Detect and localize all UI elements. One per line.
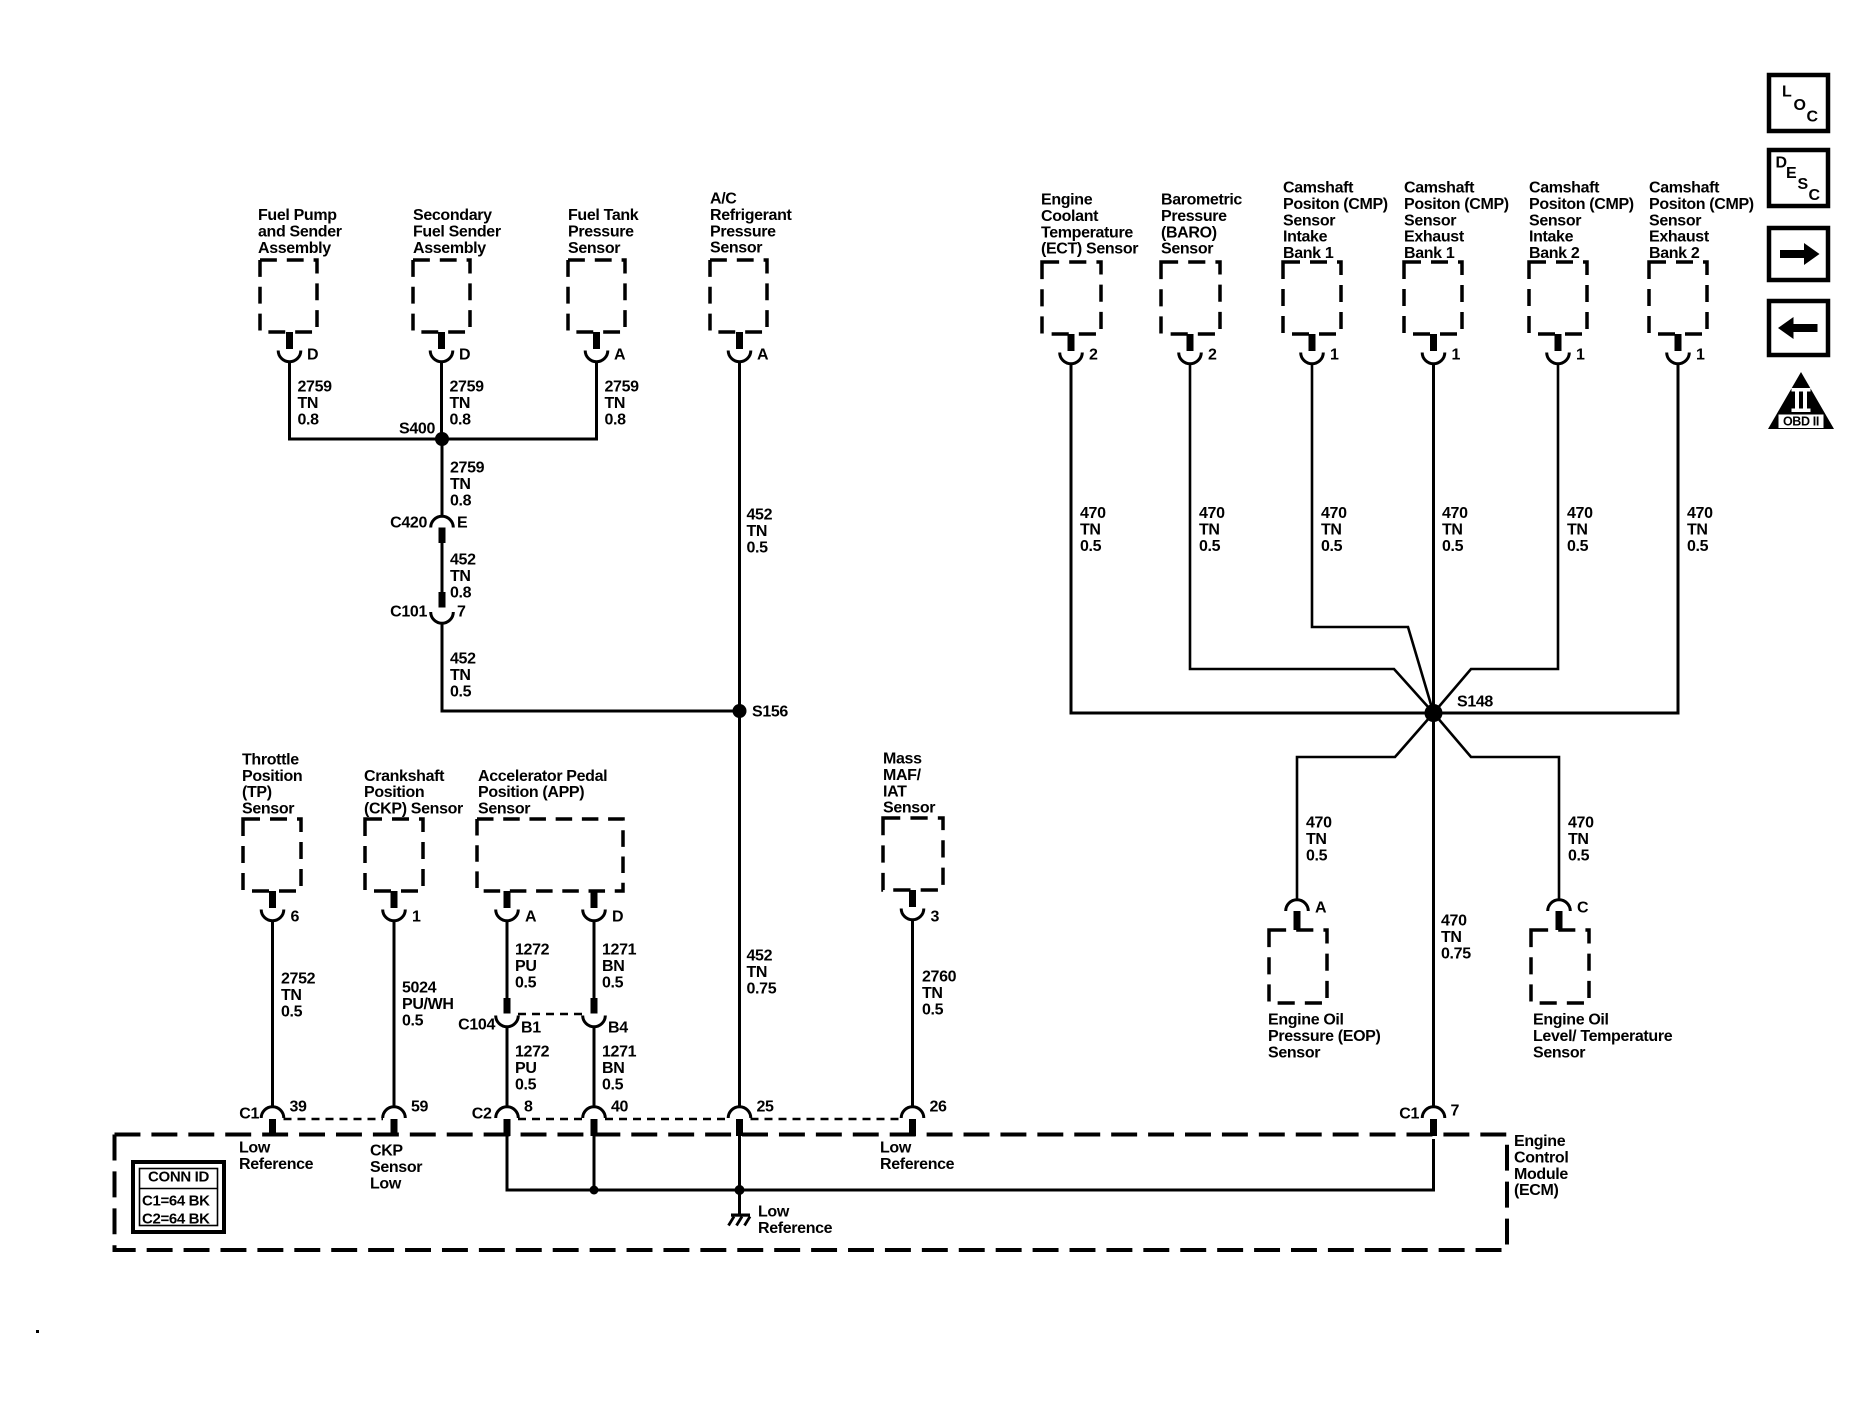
- svg-text:Camshaft: Camshaft: [1529, 180, 1600, 197]
- svg-text:A: A: [525, 909, 537, 926]
- svg-text:Assembly: Assembly: [258, 240, 331, 257]
- svg-text:Sensor: Sensor: [1649, 212, 1701, 229]
- svg-text:Sensor: Sensor: [370, 1159, 422, 1176]
- svg-text:452: 452: [747, 507, 773, 524]
- svg-text:452: 452: [747, 948, 773, 965]
- speck artifact bottom-left: [36, 1330, 39, 1333]
- svg-text:0.5: 0.5: [402, 1012, 424, 1029]
- svg-text:2759: 2759: [450, 460, 485, 477]
- svg-text:TN: TN: [450, 395, 471, 412]
- svg-text:Low: Low: [239, 1140, 271, 1157]
- svg-text:BN: BN: [602, 1060, 624, 1077]
- svg-text:C: C: [1807, 109, 1819, 126]
- svg-text:B1: B1: [521, 1020, 541, 1037]
- wire: 470 TN 0.5 from CMP Sensor Intake Bank 1 pin 1 to splice S148: [1312, 364, 1434, 713]
- svg-text:2759: 2759: [450, 379, 485, 396]
- wire: ECM pin 40 to bus: [593, 1136, 596, 1190]
- svg-text:Bank 1: Bank 1: [1404, 245, 1455, 262]
- wire: bus to internal Low Reference ground point: [738, 1190, 741, 1215]
- svg-text:2752: 2752: [281, 971, 316, 988]
- svg-text:Position (APP): Position (APP): [478, 784, 584, 801]
- label: wire 470 TN 0.5: [1199, 505, 1225, 555]
- component: Fuel Tank Pressure Sensor (pin A): [568, 207, 639, 364]
- svg-text:8: 8: [524, 1099, 533, 1116]
- wire: 2752 TN 0.5 from TP Sensor pin 6 to ECM pin C1-39: [271, 921, 274, 1107]
- svg-text:6: 6: [291, 909, 300, 926]
- svg-text:Intake: Intake: [1283, 229, 1328, 246]
- svg-text:0.8: 0.8: [450, 584, 472, 601]
- svg-text:TN: TN: [747, 523, 768, 540]
- wire: 1272 PU 0.5 from APP Sensor pin A to C104 pin B1: [506, 921, 509, 998]
- component: Fuel Pump and Sender Assembly (pin D): [258, 207, 342, 364]
- svg-text:470: 470: [1567, 505, 1593, 522]
- svg-text:470: 470: [1441, 913, 1467, 930]
- component: Camshaft Positon (CMP) Sensor Intake Bank 2 (pin 1): [1529, 180, 1634, 364]
- connector C104 mating line: [518, 1013, 583, 1016]
- label: wire 470 TN 0.5: [1568, 815, 1594, 865]
- svg-text:Mass: Mass: [883, 751, 922, 768]
- svg-text:PU/WH: PU/WH: [402, 996, 454, 1013]
- label: Low Reference (pin 39): [239, 1140, 314, 1173]
- ECM connector mating line C1 (39-59): [284, 1118, 384, 1121]
- svg-text:Sensor: Sensor: [1268, 1044, 1320, 1061]
- svg-text:0.8: 0.8: [450, 411, 472, 428]
- svg-text:A/C: A/C: [710, 191, 737, 208]
- svg-text:0.5: 0.5: [1080, 538, 1102, 555]
- label: wire 452 TN 0.75: [747, 948, 777, 998]
- svg-text:Sensor: Sensor: [568, 240, 620, 257]
- component: Barometric Pressure (BARO) Sensor (pin 2): [1161, 192, 1242, 364]
- component: Camshaft Positon (CMP) Sensor Exhaust Bank 2 (pin 1): [1649, 180, 1754, 364]
- label: wire 470 TN 0.5: [1306, 815, 1332, 865]
- component: Mass MAF/IAT Sensor (pin 3): [883, 751, 943, 926]
- wire: 1272 PU 0.5 from C104 pin B1 to ECM pin C2-8: [506, 1027, 509, 1107]
- ECM pin 59 (CKP Sensor Low): [383, 1099, 429, 1136]
- svg-text:A: A: [614, 347, 626, 364]
- svg-text:1271: 1271: [602, 942, 637, 959]
- svg-text:Sensor: Sensor: [1529, 212, 1581, 229]
- svg-text:0.5: 0.5: [602, 1076, 624, 1093]
- wire: 2759 TN 0.8 from Fuel Tank Pressure Sensor pin A to splice S400: [442, 361, 597, 439]
- svg-text:OBD II: OBD II: [1783, 415, 1819, 429]
- svg-text:PU: PU: [515, 958, 537, 975]
- svg-text:Control: Control: [1514, 1149, 1568, 1166]
- svg-text:TN: TN: [605, 395, 626, 412]
- connector C420 (pin E): [390, 515, 468, 543]
- svg-text:TN: TN: [1441, 929, 1462, 946]
- wire: 1271 BN 0.5 from C104 pin B4 to ECM pin 40: [593, 1027, 596, 1107]
- wire: 470 TN from CMP Sensor Exhaust Bank 1 pin 1 through S148 to ECM pin C1-7: [1432, 364, 1435, 1107]
- svg-text:TN: TN: [1321, 521, 1342, 538]
- svg-text:A: A: [1315, 900, 1327, 917]
- svg-text:Crankshaft: Crankshaft: [364, 768, 445, 785]
- ECM pin 25: [728, 1099, 774, 1136]
- connector C104 pin B1: [458, 998, 541, 1037]
- svg-text:25: 25: [757, 1099, 775, 1116]
- wire: 5024 PU/WH 0.5 from CKP Sensor pin 1 to ECM pin 59: [393, 921, 396, 1107]
- svg-text:452: 452: [450, 552, 476, 569]
- svg-text:0.5: 0.5: [1442, 538, 1464, 555]
- wire: 470 TN 0.5 from ECT Sensor pin 2 to splice S148: [1071, 364, 1434, 713]
- svg-text:0.8: 0.8: [450, 492, 472, 509]
- svg-text:1: 1: [1696, 347, 1705, 364]
- svg-text:TN: TN: [298, 395, 319, 412]
- svg-text:Assembly: Assembly: [413, 240, 486, 257]
- icon: DESC button: [1769, 150, 1828, 206]
- svg-text:0.8: 0.8: [298, 411, 320, 428]
- icon: forward arrow button: [1769, 228, 1828, 280]
- wire: 470 TN 0.5 from BARO Sensor pin 2 to splice S148: [1190, 364, 1434, 713]
- svg-text:Fuel Sender: Fuel Sender: [413, 223, 501, 240]
- svg-text:Camshaft: Camshaft: [1404, 180, 1475, 197]
- svg-text:1271: 1271: [602, 1044, 637, 1061]
- svg-text:D: D: [612, 909, 623, 926]
- svg-text:Pressure: Pressure: [1161, 208, 1227, 225]
- svg-text:(BARO): (BARO): [1161, 224, 1217, 241]
- ECM pin C2-8: [472, 1099, 533, 1136]
- svg-text:39: 39: [290, 1099, 308, 1116]
- svg-text:TN: TN: [450, 667, 471, 684]
- svg-text:Sensor: Sensor: [883, 800, 935, 817]
- svg-text:(CKP) Sensor: (CKP) Sensor: [364, 800, 463, 817]
- svg-text:Sensor: Sensor: [242, 800, 294, 817]
- svg-text:0.5: 0.5: [602, 974, 624, 991]
- svg-text:O: O: [1794, 97, 1806, 114]
- svg-text:C2=64 BK: C2=64 BK: [142, 1210, 210, 1227]
- svg-text:0.5: 0.5: [450, 683, 472, 700]
- svg-text:59: 59: [411, 1099, 429, 1116]
- junction: pin 25 on bus: [735, 1185, 745, 1195]
- svg-text:Positon (CMP): Positon (CMP): [1283, 196, 1388, 213]
- svg-text:Module: Module: [1514, 1166, 1568, 1183]
- svg-text:1: 1: [1330, 347, 1339, 364]
- component: A/C Refrigerant Pressure Sensor (pin A): [710, 191, 793, 364]
- svg-text:Positon (CMP): Positon (CMP): [1404, 196, 1509, 213]
- svg-text:TN: TN: [1080, 521, 1101, 538]
- wire: 470 TN 0.5 from CMP Sensor Exhaust Bank 2 pin 1 to splice S148: [1434, 364, 1679, 713]
- svg-text:Coolant: Coolant: [1041, 208, 1099, 225]
- svg-text:Position: Position: [242, 768, 302, 785]
- svg-text:Engine Oil: Engine Oil: [1533, 1012, 1609, 1029]
- svg-text:Accelerator Pedal: Accelerator Pedal: [478, 768, 607, 785]
- svg-text:Sensor: Sensor: [1161, 241, 1213, 258]
- ECM pin C1-7: [1399, 1103, 1459, 1136]
- svg-text:(ECM): (ECM): [1514, 1182, 1558, 1199]
- component: Crankshaft Position (CKP) Sensor (pin 1): [364, 768, 463, 926]
- svg-text:Intake: Intake: [1529, 229, 1574, 246]
- svg-text:Engine: Engine: [1041, 192, 1093, 209]
- svg-text:Pressure: Pressure: [710, 223, 776, 240]
- ECM pin C1-39 (Low Reference): [239, 1099, 307, 1136]
- svg-text:1272: 1272: [515, 942, 550, 959]
- svg-text:TN: TN: [747, 964, 768, 981]
- svg-text:Bank 2: Bank 2: [1649, 245, 1700, 262]
- svg-text:Sensor: Sensor: [710, 240, 762, 257]
- svg-text:C1=64 BK: C1=64 BK: [142, 1192, 210, 1209]
- label: wire 2759 TN 0.8: [450, 460, 485, 510]
- svg-text:0.5: 0.5: [1568, 847, 1590, 864]
- label: wire 1272 PU 0.5: [515, 1044, 550, 1094]
- svg-text:Camshaft: Camshaft: [1283, 180, 1354, 197]
- svg-text:Bank 1: Bank 1: [1283, 245, 1334, 262]
- svg-text:Exhaust: Exhaust: [1649, 229, 1710, 246]
- svg-text:Reference: Reference: [880, 1156, 955, 1173]
- label: wire 2759 TN 0.8: [605, 379, 640, 429]
- splice S156: [733, 704, 789, 721]
- svg-text:S148: S148: [1457, 694, 1493, 711]
- svg-text:C1: C1: [1399, 1106, 1419, 1123]
- splice S400: [399, 421, 449, 446]
- svg-text:TN: TN: [1568, 831, 1589, 848]
- svg-text:1272: 1272: [515, 1044, 550, 1061]
- svg-text:0.75: 0.75: [1441, 945, 1471, 962]
- icon: LOC button: [1769, 75, 1828, 131]
- svg-text:Sensor: Sensor: [478, 800, 530, 817]
- component: Engine Oil Level/Temperature Sensor (pin C): [1531, 900, 1673, 1062]
- svg-text:7: 7: [457, 604, 466, 621]
- label: Low Reference (ground): [758, 1204, 833, 1237]
- svg-text:Sensor: Sensor: [1533, 1044, 1585, 1061]
- label: wire 470 TN 0.5: [1567, 505, 1593, 555]
- wire: 2760 TN 0.5 from MAF/IAT Sensor pin 3 to ECM pin 26: [911, 921, 914, 1107]
- svg-text:0.5: 0.5: [1306, 847, 1328, 864]
- svg-text:470: 470: [1321, 505, 1347, 522]
- svg-text:0.5: 0.5: [922, 1001, 944, 1018]
- label: wire 470 TN 0.75: [1441, 913, 1471, 963]
- wire: 452 TN from A/C Refrigerant Pressure Sensor pin A through S156 to ECM pin 25: [738, 361, 741, 1107]
- svg-text:Positon (CMP): Positon (CMP): [1649, 196, 1754, 213]
- svg-text:C: C: [1577, 900, 1589, 917]
- svg-text:CONN ID: CONN ID: [148, 1168, 209, 1185]
- wire: 2759 TN 0.8 from S400 to connector C420: [441, 439, 444, 516]
- svg-text:C1: C1: [239, 1106, 259, 1123]
- svg-text:470: 470: [1568, 815, 1594, 832]
- svg-text:C2: C2: [472, 1106, 492, 1123]
- svg-text:TN: TN: [1306, 831, 1327, 848]
- svg-text:TN: TN: [1687, 521, 1708, 538]
- svg-text:Reference: Reference: [239, 1156, 314, 1173]
- component: Camshaft Positon (CMP) Sensor Exhaust Bank 1 (pin 1): [1404, 180, 1509, 364]
- svg-text:C104: C104: [458, 1017, 495, 1034]
- svg-text:1: 1: [1452, 347, 1461, 364]
- svg-text:Engine: Engine: [1514, 1133, 1566, 1150]
- wire: 452 TN 0.8 from C420 to connector C101: [441, 543, 444, 592]
- svg-text:Engine Oil: Engine Oil: [1268, 1012, 1344, 1029]
- svg-text:Secondary: Secondary: [413, 207, 492, 224]
- svg-text:5024: 5024: [402, 980, 437, 997]
- svg-text:0.75: 0.75: [747, 980, 777, 997]
- svg-text:Fuel Pump: Fuel Pump: [258, 207, 337, 224]
- component: Engine Coolant Temperature (ECT) Sensor (pin 2): [1041, 192, 1138, 364]
- ground: internal Low Reference symbol: [729, 1214, 751, 1226]
- svg-text:B4: B4: [608, 1020, 628, 1037]
- svg-text:26: 26: [930, 1099, 948, 1116]
- label: wire 470 TN 0.5: [1321, 505, 1347, 555]
- label: wire 1271 BN 0.5: [602, 942, 637, 992]
- svg-text:Level/ Temperature: Level/ Temperature: [1533, 1028, 1673, 1045]
- svg-text:BN: BN: [602, 958, 624, 975]
- svg-text:470: 470: [1306, 815, 1332, 832]
- svg-text:0.5: 0.5: [1567, 538, 1589, 555]
- svg-text:2759: 2759: [605, 379, 640, 396]
- label: wire 1271 BN 0.5: [602, 1044, 637, 1094]
- label: CKP Sensor Low (pin 59): [370, 1143, 422, 1193]
- svg-text:IAT: IAT: [883, 783, 907, 800]
- svg-text:Low: Low: [370, 1175, 402, 1192]
- svg-text:TN: TN: [450, 476, 471, 493]
- svg-text:D: D: [459, 347, 470, 364]
- svg-text:Pressure (EOP): Pressure (EOP): [1268, 1028, 1381, 1045]
- svg-text:452: 452: [450, 651, 476, 668]
- wire: ECM pin 25 to bus: [738, 1136, 741, 1190]
- label: wire 452 TN 0.8: [450, 552, 476, 602]
- svg-text:Camshaft: Camshaft: [1649, 180, 1720, 197]
- svg-text:Sensor: Sensor: [1283, 212, 1335, 229]
- svg-text:Pressure: Pressure: [568, 223, 634, 240]
- svg-text:L: L: [1782, 84, 1792, 101]
- svg-text:C: C: [1809, 187, 1821, 204]
- module: Engine Control Module (ECM) dashed outline: [115, 1135, 1508, 1251]
- svg-text:S156: S156: [752, 704, 788, 721]
- svg-text:PU: PU: [515, 1060, 537, 1077]
- icon: back arrow button: [1769, 301, 1828, 355]
- svg-text:(TP): (TP): [242, 784, 272, 801]
- label: wire 2760 TN 0.5: [922, 969, 957, 1019]
- svg-text:TN: TN: [922, 985, 943, 1002]
- svg-text:0.8: 0.8: [605, 411, 627, 428]
- svg-text:7: 7: [1451, 1103, 1460, 1120]
- svg-text:TN: TN: [450, 568, 471, 585]
- label: wire 452 TN 0.5: [450, 651, 476, 701]
- wire: 2759 TN 0.8 from Fuel Pump pin D to splice S400: [290, 361, 443, 439]
- label: wire 470 TN 0.5: [1080, 505, 1106, 555]
- wire: 470 TN 0.5 from CMP Sensor Intake Bank 2 pin 1 to splice S148: [1434, 364, 1559, 713]
- wire: 452 TN 0.5 from C101 to splice S156: [442, 624, 740, 712]
- svg-text:0.5: 0.5: [1687, 538, 1709, 555]
- component: Engine Oil Pressure (EOP) Sensor (pin A): [1268, 900, 1381, 1062]
- svg-text:Position: Position: [364, 784, 424, 801]
- component: Camshaft Positon (CMP) Sensor Intake Bank 1 (pin 1): [1283, 180, 1388, 364]
- label: wire 2752 TN 0.5: [281, 971, 316, 1021]
- svg-text:TN: TN: [1199, 521, 1220, 538]
- svg-text:Low: Low: [758, 1204, 790, 1221]
- svg-text:470: 470: [1080, 505, 1106, 522]
- label: wire 470 TN 0.5: [1687, 505, 1713, 555]
- svg-text:2: 2: [1089, 347, 1098, 364]
- svg-text:Barometric: Barometric: [1161, 192, 1242, 209]
- svg-text:2759: 2759: [298, 379, 333, 396]
- svg-text:1: 1: [1576, 347, 1585, 364]
- wire: 470 TN 0.5 from splice S148 to Engine Oil Level/Temperature Sensor pin C: [1434, 713, 1560, 900]
- component: Secondary Fuel Sender Assembly (pin D): [413, 207, 501, 364]
- ECM connector mating line C2 (8-40-25-26): [518, 1118, 583, 1121]
- svg-text:and Sender: and Sender: [258, 223, 342, 240]
- label: wire 452 TN 0.5: [747, 507, 773, 557]
- junction: pin 40 on bus: [590, 1186, 599, 1195]
- svg-text:TN: TN: [1442, 521, 1463, 538]
- svg-text:CKP: CKP: [370, 1143, 403, 1160]
- svg-text:D: D: [307, 347, 318, 364]
- label: wire 2759 TN 0.8: [450, 379, 485, 429]
- svg-text:3: 3: [931, 909, 940, 926]
- wire: internal ECM low reference bus: [507, 1136, 1434, 1190]
- svg-text:TN: TN: [1567, 521, 1588, 538]
- wire: 1271 BN 0.5 from APP Sensor pin D to C104 pin B4: [593, 921, 596, 998]
- svg-text:0.5: 0.5: [281, 1003, 303, 1020]
- svg-text:A: A: [757, 347, 769, 364]
- svg-text:40: 40: [611, 1099, 629, 1116]
- svg-text:Positon (CMP): Positon (CMP): [1529, 196, 1634, 213]
- svg-text:0.5: 0.5: [515, 974, 537, 991]
- wire: 470 TN 0.5 from splice S148 to Engine Oil Pressure Sensor pin A: [1297, 713, 1434, 900]
- svg-text:(ECT) Sensor: (ECT) Sensor: [1041, 241, 1138, 258]
- svg-text:2: 2: [1208, 347, 1217, 364]
- connector C101 (pin 7): [390, 592, 466, 623]
- svg-text:S: S: [1798, 176, 1809, 193]
- label: wire 470 TN 0.5: [1442, 505, 1468, 555]
- svg-text:E: E: [1786, 165, 1797, 182]
- label: wire 1272 PU 0.5: [515, 942, 550, 992]
- svg-text:1: 1: [412, 909, 421, 926]
- ECM pin 26 (Low Reference): [901, 1099, 947, 1136]
- wire: 2759 TN 0.8 from Secondary Fuel Sender pin D to splice S400: [440, 361, 443, 439]
- svg-text:0.5: 0.5: [1321, 538, 1343, 555]
- table: CONN ID (C1=64 BK, C2=64 BK): [133, 1162, 224, 1232]
- svg-text:0.5: 0.5: [1199, 538, 1221, 555]
- label: wire 2759 TN 0.8: [298, 379, 333, 429]
- svg-text:470: 470: [1442, 505, 1468, 522]
- svg-text:Reference: Reference: [758, 1220, 833, 1237]
- svg-text:Bank 2: Bank 2: [1529, 245, 1580, 262]
- label: wire 5024 PU/WH 0.5: [402, 980, 454, 1030]
- svg-text:Low: Low: [880, 1140, 912, 1157]
- label: Low Reference (pin 26): [880, 1140, 955, 1173]
- svg-text:Refrigerant: Refrigerant: [710, 207, 793, 224]
- svg-text:S400: S400: [399, 421, 435, 438]
- ECM pin 40: [583, 1099, 629, 1136]
- connector C104 pin B4: [583, 998, 629, 1037]
- svg-text:TN: TN: [281, 987, 302, 1004]
- component: Accelerator Pedal Position (APP) Sensor (pins A, D): [477, 768, 623, 926]
- svg-text:E: E: [457, 515, 468, 532]
- svg-text:0.5: 0.5: [515, 1076, 537, 1093]
- svg-text:470: 470: [1199, 505, 1225, 522]
- svg-text:Temperature: Temperature: [1041, 224, 1133, 241]
- svg-text:Fuel Tank: Fuel Tank: [568, 207, 639, 224]
- svg-text:Throttle: Throttle: [242, 751, 299, 768]
- icon: OBD II warning triangle: [1768, 372, 1834, 429]
- svg-text:C420: C420: [390, 515, 427, 532]
- label: Engine Control Module (ECM): [1514, 1133, 1568, 1199]
- svg-text:Sensor: Sensor: [1404, 212, 1456, 229]
- splice S148: [1425, 694, 1494, 722]
- svg-text:0.5: 0.5: [747, 539, 769, 556]
- svg-text:MAF/: MAF/: [883, 767, 922, 784]
- svg-text:C101: C101: [390, 604, 427, 621]
- svg-text:470: 470: [1687, 505, 1713, 522]
- component: Throttle Position (TP) Sensor (pin 6): [242, 751, 302, 925]
- svg-text:Exhaust: Exhaust: [1404, 229, 1465, 246]
- svg-text:2760: 2760: [922, 969, 957, 986]
